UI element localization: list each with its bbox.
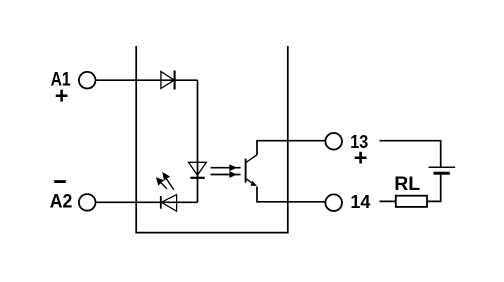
wire A1 to corner [96,79,198,81]
svg-text:RL: RL [394,173,420,195]
resistor RL [396,196,427,207]
wire emitter to terminal 14 [257,187,325,202]
terminal 13 [325,133,342,150]
module outline box [136,46,288,233]
diode D1 [161,71,175,90]
wire terminal 13 to battery [380,141,441,167]
LED D2 opto emitter [189,162,207,178]
wire battery to resistor [427,175,441,202]
wire vertical diode branch [197,80,199,202]
indicator LED D3 [161,195,177,212]
terminal A1 [79,72,96,89]
svg-text:A2: A2 [50,191,73,213]
svg-text:+: + [55,83,69,109]
phototransistor Q1 [246,155,257,186]
wire A2 to junction [96,201,198,203]
wire collector to terminal 13 [257,141,325,155]
wire terminal 14 to resistor [379,200,395,202]
light arrows to phototransistor [211,164,241,178]
minus polarity at A2 [54,180,66,183]
svg-text:14: 14 [350,191,371,212]
indicator LED light arrows [156,172,174,190]
terminal A2 [79,194,96,211]
terminal 14 [325,194,342,211]
battery B1 [429,167,456,173]
svg-text:+: + [354,145,368,171]
